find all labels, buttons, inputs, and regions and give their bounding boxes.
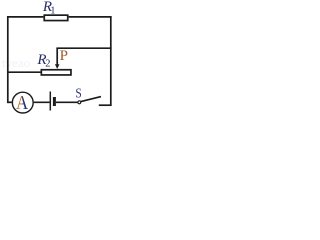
svg-text:1: 1 bbox=[50, 6, 55, 17]
svg-text:S: S bbox=[75, 85, 81, 100]
svg-text:P: P bbox=[60, 48, 68, 64]
svg-text:2: 2 bbox=[45, 58, 50, 69]
svg-text:tveao: tveao bbox=[2, 55, 30, 70]
svg-text:A: A bbox=[16, 92, 29, 115]
